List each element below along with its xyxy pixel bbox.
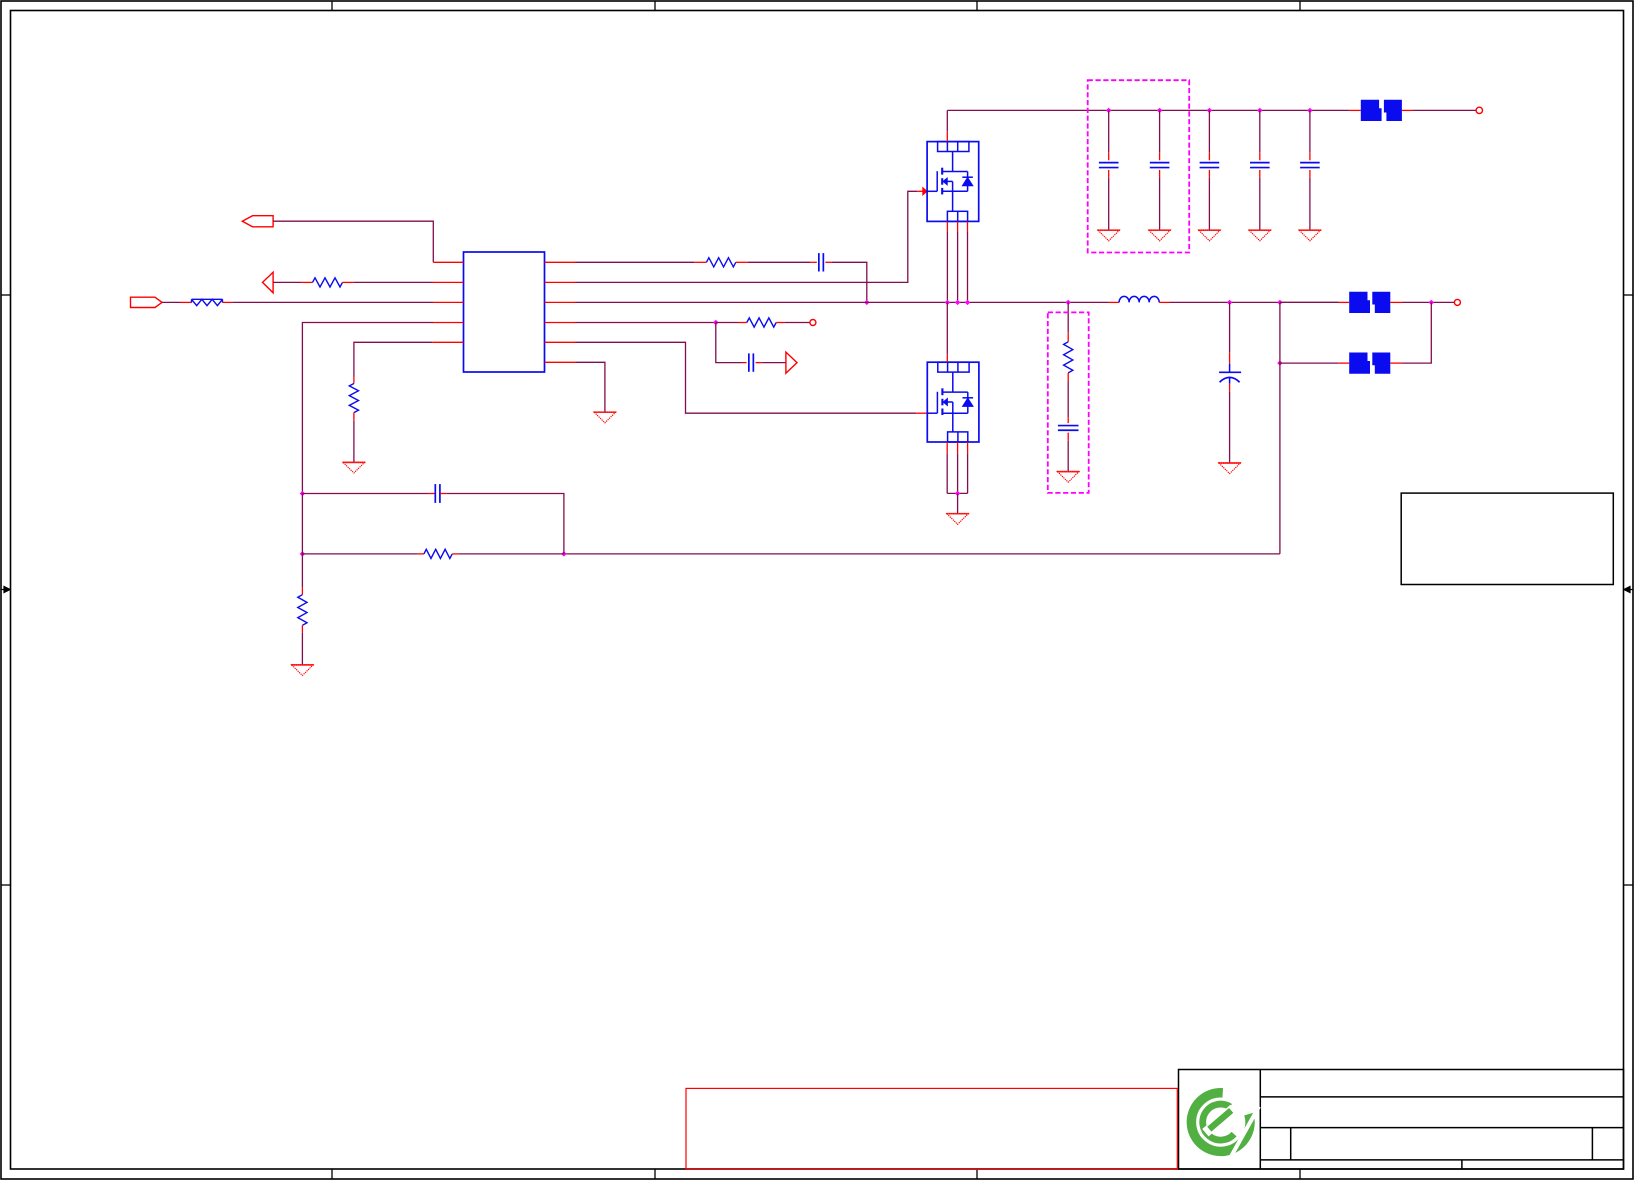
junction C9 VIN — [1307, 108, 1312, 113]
wire Q2 source to ground — [957, 493, 959, 513]
junction C11 VOUT — [1227, 300, 1232, 305]
wire row6 to ground — [575, 362, 605, 412]
R1 right lead — [343, 281, 354, 283]
wire comp lower left — [302, 553, 418, 555]
junction Q1-b — [955, 300, 960, 305]
wire SW to Q2 drain — [946, 302, 948, 354]
wire F4 up to F3 — [1403, 302, 1432, 363]
wire VIN corner to Q1 drain — [946, 110, 948, 131]
wire comp lower right — [458, 553, 564, 555]
F3 right lead — [1390, 301, 1402, 303]
junction Q1-a — [945, 300, 950, 305]
Q1 gate arrow — [923, 188, 928, 196]
wire C6 to ground — [1159, 178, 1161, 230]
wire VIN to C8 — [1259, 110, 1261, 152]
wire FB vertical to U1 pin4 — [302, 323, 433, 494]
ground C9 — [1299, 230, 1322, 241]
Q1 gate lead — [917, 190, 923, 192]
R1 left lead — [301, 281, 312, 283]
junction C7 VIN — [1207, 108, 1212, 113]
wire SW to R6 — [1067, 302, 1069, 332]
wire FB to R7 — [301, 554, 303, 587]
U1 pin9 stub (row4) — [545, 322, 576, 324]
wire VIN rail — [947, 109, 1349, 111]
C11 top lead — [1229, 352, 1231, 363]
resistor R3 — [706, 258, 735, 267]
ground C10 — [1057, 472, 1080, 483]
L1 right lead — [1159, 301, 1169, 303]
capacitor C6 — [1150, 162, 1170, 164]
test point TP1 — [810, 320, 816, 326]
junction C5 VIN — [1106, 108, 1111, 113]
C9 bottom lead — [1309, 170, 1311, 178]
ground U1 — [594, 412, 617, 423]
C3 right lead — [825, 261, 832, 263]
C4 right lead — [756, 362, 762, 364]
R7 top lead — [301, 587, 303, 594]
C8 top lead — [1259, 152, 1261, 160]
capacitor C9 — [1300, 162, 1320, 164]
wire R3 to C3 — [748, 261, 810, 263]
VIN terminal — [1476, 107, 1482, 113]
title block frame — [1179, 1070, 1624, 1170]
U1 pin5 stub — [432, 341, 463, 343]
fuse F1 (triple-chevron symbol) — [192, 299, 223, 305]
wire VOUT rail right — [1339, 301, 1350, 303]
C7 top lead — [1208, 152, 1210, 160]
resistor R4 — [424, 549, 452, 558]
fuse F4 (VOUT lower) — [1349, 353, 1390, 374]
R2 top lead — [353, 377, 355, 384]
wire C11 to ground — [1229, 392, 1231, 463]
C3 left lead — [810, 261, 817, 263]
C7 bottom lead — [1208, 170, 1210, 178]
wire VIN to C5 — [1108, 110, 1110, 152]
DNP group box (input caps) — [1088, 80, 1190, 252]
wire SW rail — [576, 301, 1069, 303]
regulator IC U1 — [464, 252, 545, 372]
capacitor C3 — [818, 253, 820, 271]
wire VIN to C9 — [1309, 110, 1311, 152]
C9 top lead — [1309, 152, 1311, 160]
U1 pin10 stub (row5) — [545, 341, 576, 343]
junction FB left lower — [300, 551, 305, 556]
R2 bottom lead — [353, 413, 355, 421]
F2 left lead — [1349, 109, 1360, 111]
C5 bottom lead — [1108, 170, 1110, 178]
wire VOUT to C11 — [1229, 302, 1231, 352]
wire C4 to flag — [762, 362, 786, 364]
C10 bottom lead — [1067, 433, 1069, 441]
input port connector P1 — [131, 297, 163, 307]
wire VIN to C7 — [1208, 110, 1210, 152]
transistor Q1 (high-side MOSFET) — [927, 142, 979, 222]
R4 right lead — [452, 553, 458, 555]
U1 pin2 stub — [433, 281, 464, 283]
company logo (green) — [1191, 1093, 1259, 1161]
C6 bottom lead — [1159, 170, 1161, 178]
junction row4 — [713, 320, 718, 325]
wire VOUT to F3 — [1280, 301, 1339, 303]
net flag (triangle right) — [786, 352, 797, 373]
wire R1 to U1 pin2 — [354, 281, 433, 283]
capacitor C8 — [1250, 162, 1270, 164]
resistor R7 — [298, 595, 307, 626]
ground C8 — [1249, 230, 1272, 241]
note box (right) — [1401, 493, 1613, 584]
U1 pin4 stub — [433, 322, 464, 324]
net flag (pointed tag) upper left — [242, 216, 273, 227]
C12 left lead — [429, 493, 435, 495]
junction C6 VIN — [1157, 108, 1162, 113]
wire F2 to VIN terminal — [1413, 109, 1477, 111]
wire row1 to R3 — [576, 261, 695, 263]
border centre arrow right — [1624, 586, 1634, 593]
junction F3/F4 — [1429, 300, 1434, 305]
junction F4 branch — [1277, 360, 1282, 365]
wire row2 to Q1 gate — [576, 191, 918, 282]
capacitor C4 — [748, 353, 750, 371]
capacitor C12 — [434, 484, 436, 503]
wire R5 to TP1 — [785, 322, 810, 324]
C11 bottom lead — [1229, 384, 1231, 392]
junction row1/SW — [864, 300, 869, 305]
U1 pin6 stub (row1) — [545, 261, 576, 263]
wire C9 to ground — [1309, 178, 1311, 230]
U1 pin8 stub (SW) — [545, 301, 576, 303]
junction Q1-c — [965, 300, 970, 305]
C6 top lead — [1159, 152, 1161, 160]
ground C11 — [1218, 463, 1241, 474]
capacitor C5 — [1099, 162, 1119, 164]
junction Q2 source — [955, 491, 960, 496]
C10 top lead — [1067, 417, 1069, 423]
wire to F4 — [1280, 362, 1339, 364]
wire R6 to C10 — [1067, 382, 1069, 418]
wire row4 — [576, 322, 716, 324]
wire C5 to ground — [1108, 178, 1110, 230]
U1 pin11 stub (row6) — [545, 361, 576, 363]
wire FB sense horizontal — [564, 553, 1280, 555]
transistor Q2 (low-side MOSFET) — [927, 362, 979, 442]
wire comp upper right — [446, 494, 564, 554]
L1 left lead — [1109, 301, 1119, 303]
ground C7 — [1198, 230, 1221, 241]
F4 right lead — [1390, 362, 1402, 364]
F1 left lead — [181, 301, 192, 303]
junction VOUT-FB — [1277, 300, 1282, 305]
R4 left lead — [418, 553, 424, 555]
wire C7 to ground — [1208, 178, 1210, 230]
R7 bottom lead — [301, 625, 303, 632]
junction FB left upper — [300, 491, 305, 496]
junction snubber — [1066, 300, 1071, 305]
R3 left lead — [694, 261, 706, 263]
Q1 source wires to SW — [947, 221, 967, 302]
wire L1 to VOUT rail — [1170, 301, 1339, 303]
fuse F2 (VIN) — [1361, 100, 1402, 121]
Q2 gate lead — [916, 412, 927, 414]
wire F1 to U1 pin3 — [232, 301, 433, 303]
wire R2 to ground — [353, 421, 355, 462]
wire row5 to Q2 gate — [576, 342, 917, 413]
wire flag to U1 pin1 — [273, 221, 433, 262]
capacitor C11 (polarized) — [1219, 364, 1241, 384]
F4 left lead — [1339, 362, 1350, 364]
wire P1 to F1 — [162, 301, 181, 303]
wire comp upper left — [302, 493, 429, 495]
wire F3 to VOUT terminal — [1403, 301, 1455, 303]
wire FB sense vertical — [1279, 302, 1281, 554]
net flag (triangle) EN — [263, 272, 274, 293]
R5 left lead — [739, 322, 747, 324]
Q2 source wires — [947, 442, 967, 493]
ground C5 — [1097, 230, 1120, 241]
VOUT terminal — [1454, 299, 1460, 305]
wire U1 pin5 to R2 — [354, 342, 432, 376]
junction C8 VIN — [1257, 108, 1262, 113]
F1 right lead — [223, 301, 233, 303]
wire C8 to ground — [1259, 178, 1261, 230]
ground R7 — [291, 665, 314, 676]
border centre arrow left — [1, 586, 11, 593]
U1 pin3 stub — [433, 301, 464, 303]
R5 right lead — [776, 322, 784, 324]
wire SW to L1 — [1068, 301, 1109, 303]
C12 right lead — [440, 493, 446, 495]
inductor L1 — [1119, 296, 1159, 302]
Q2 drain stub — [946, 355, 948, 362]
wire C3 to SW node — [832, 262, 867, 302]
wire row4 to C4 — [716, 323, 743, 363]
U1 pin7 stub (row2) — [545, 281, 576, 283]
ground Q2 — [946, 514, 969, 525]
C5 top lead — [1108, 152, 1110, 160]
U1 pin1 stub — [433, 261, 463, 263]
capacitor C10 — [1058, 425, 1079, 427]
wire VIN to C6 — [1159, 110, 1161, 152]
ground R2 — [343, 462, 366, 473]
resistor R5 — [747, 318, 776, 327]
wire C10 to ground — [1067, 441, 1069, 471]
capacitor C7 — [1200, 162, 1220, 164]
junction FB mid — [561, 551, 566, 556]
F2 right lead — [1402, 109, 1413, 111]
resistor R2 — [349, 384, 358, 413]
wire R7 to ground — [301, 633, 303, 665]
resistor R6 — [1064, 342, 1073, 373]
Q1 drain stub — [946, 131, 948, 141]
fuse F3 (VOUT upper) — [1349, 292, 1390, 313]
wire row4 to R5 — [716, 322, 739, 324]
R6 bottom lead — [1067, 373, 1069, 382]
C4 left lead — [743, 362, 747, 364]
wire FB node vertical — [301, 494, 303, 554]
ground C6 — [1148, 230, 1171, 241]
DNP group box (snubber) — [1048, 312, 1089, 493]
C8 bottom lead — [1259, 170, 1261, 178]
R6 top lead — [1067, 332, 1069, 342]
R3 right lead — [736, 261, 748, 263]
resistor R1 — [313, 278, 343, 287]
wire EN flag to R1 — [273, 281, 301, 283]
red annotation box (bottom) — [686, 1088, 1177, 1169]
